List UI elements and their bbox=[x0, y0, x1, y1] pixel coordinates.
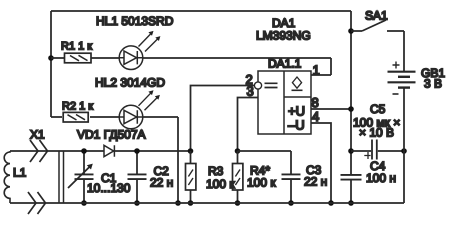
op-amp U1 comparator DA1.1 box bbox=[258, 71, 311, 134]
battery GB1 bbox=[388, 31, 416, 203]
svg-text:3 В: 3 В bbox=[424, 77, 442, 91]
svg-text:DA1.1: DA1.1 bbox=[268, 57, 302, 71]
LED HL2 bbox=[119, 105, 143, 129]
resistor R2 bbox=[63, 112, 88, 122]
node C2 top bbox=[134, 148, 140, 154]
wire supply vertical x351 bbox=[350, 11, 352, 203]
svg-text:3: 3 bbox=[247, 84, 254, 99]
node R4 bottom bbox=[235, 200, 241, 206]
capacitor C3 bbox=[282, 151, 301, 203]
svg-text:100 н: 100 н bbox=[366, 171, 396, 185]
svg-text:L1: L1 bbox=[13, 166, 27, 180]
LED HL1 bbox=[119, 46, 143, 70]
svg-text:22 н: 22 н bbox=[304, 175, 327, 189]
wire pin2 to detector node bbox=[191, 86, 255, 152]
svg-text:22 н: 22 н bbox=[150, 176, 173, 190]
svg-text:4: 4 bbox=[312, 109, 319, 124]
resistor R4 bbox=[233, 151, 243, 203]
node C2 bottom bbox=[134, 200, 140, 206]
capacitor C4 bbox=[341, 175, 362, 180]
svg-text:100 к: 100 к bbox=[206, 177, 235, 191]
capacitor C1 variable bbox=[68, 151, 94, 203]
svg-text:SA1: SA1 bbox=[365, 9, 388, 23]
inductor L1 bbox=[4, 151, 10, 203]
node junction R1 row left bbox=[48, 55, 54, 61]
wire left frame vertical bbox=[50, 11, 52, 117]
LED HL2 arrows bbox=[139, 90, 160, 110]
svg-text:LM393NG: LM393NG bbox=[256, 29, 311, 43]
node SA1 junction bbox=[348, 28, 354, 34]
node pin3/R4 junction bbox=[235, 148, 241, 154]
svg-text:× 10 В: × 10 В bbox=[359, 126, 394, 140]
wire pin 8 stub bbox=[311, 108, 351, 110]
wire R1 row bbox=[51, 57, 119, 59]
switch SA1 bbox=[351, 20, 404, 31]
svg-text:R1 1 к: R1 1 к bbox=[61, 41, 92, 53]
connector X1 bottom chevrons bbox=[28, 192, 46, 214]
diode VD1 bbox=[104, 145, 114, 156]
svg-text:–U: –U bbox=[288, 118, 305, 133]
wire detector row top bbox=[10, 150, 104, 152]
wire pin 4 to ground rail bbox=[311, 123, 331, 203]
capacitor C5 electrolytic bbox=[351, 140, 404, 160]
svg-text:VD1 ГД507А: VD1 ГД507А bbox=[77, 128, 146, 142]
resistor R1 bbox=[65, 53, 92, 63]
svg-text:10...130: 10...130 bbox=[87, 181, 131, 195]
wire top rail bbox=[51, 10, 351, 12]
node C1 bottom bbox=[81, 200, 87, 206]
wire ground rail bbox=[10, 202, 404, 204]
LED HL1 arrows bbox=[139, 31, 161, 52]
node pin8 junction bbox=[348, 106, 354, 112]
svg-text:HL1 5013SRD: HL1 5013SRD bbox=[96, 14, 174, 28]
svg-text:100 к: 100 к bbox=[247, 176, 276, 190]
wire pin3 vertical bbox=[238, 98, 259, 152]
node C1 top bbox=[81, 148, 87, 154]
svg-text:R2 1 к: R2 1 к bbox=[62, 101, 93, 113]
node pin2/R3 junction bbox=[188, 148, 194, 154]
node C5 right junction bbox=[401, 148, 407, 154]
svg-text:+U: +U bbox=[288, 104, 305, 119]
svg-text:1: 1 bbox=[313, 63, 320, 78]
node HL2 return on rail bbox=[175, 200, 181, 206]
node C4 bottom bbox=[348, 200, 354, 206]
node R3 bottom bbox=[188, 200, 194, 206]
svg-text:8: 8 bbox=[312, 95, 319, 110]
wire HL2 to ground rail bbox=[143, 117, 178, 203]
svg-text:C5: C5 bbox=[370, 102, 386, 116]
node C5 left junction bbox=[348, 148, 354, 154]
resistor R3 bbox=[186, 151, 196, 203]
svg-text:X1: X1 bbox=[30, 128, 45, 142]
connector cable double lines bbox=[59, 151, 64, 203]
node pin4 bottom bbox=[328, 200, 334, 206]
wire HL1 to pin1 bbox=[143, 58, 331, 75]
comparator equality symbol bbox=[265, 83, 278, 87]
wire R2 row bbox=[51, 116, 119, 118]
open collector diamond symbol bbox=[292, 77, 303, 90]
node C3 bottom bbox=[288, 200, 294, 206]
wire pin3 node to C3 bbox=[238, 150, 292, 152]
capacitor C2 bbox=[128, 151, 147, 203]
wire VD1 to pin2 node bbox=[114, 150, 190, 152]
svg-text:R3: R3 bbox=[208, 164, 224, 178]
pin 2 inversion circle bbox=[254, 82, 261, 89]
connector X1 top chevrons bbox=[30, 140, 48, 162]
svg-text:HL2 3014GD: HL2 3014GD bbox=[95, 76, 165, 90]
